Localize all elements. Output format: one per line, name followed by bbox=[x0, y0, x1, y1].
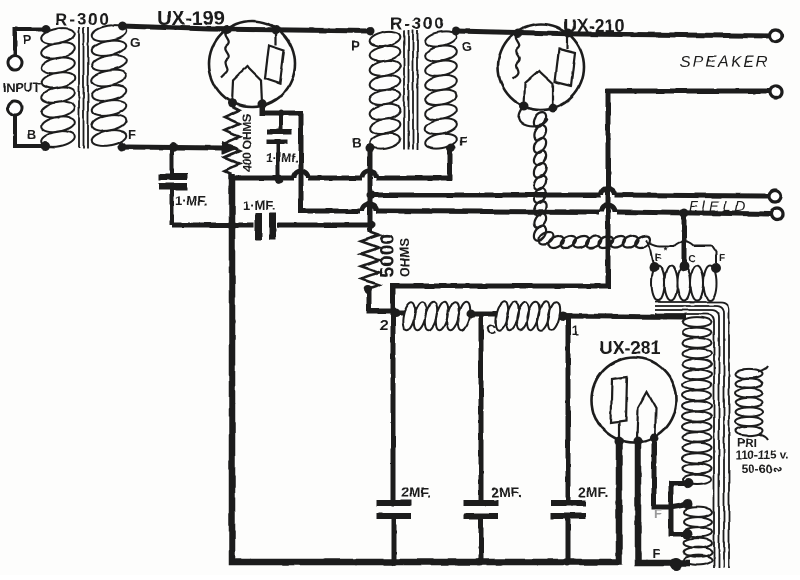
svg-text:2MF.: 2MF. bbox=[491, 484, 521, 500]
svg-text:PRI: PRI bbox=[737, 436, 757, 450]
svg-text:1·MF.: 1·MF. bbox=[243, 198, 276, 213]
svg-text:G: G bbox=[130, 35, 140, 50]
svg-text:F: F bbox=[719, 253, 725, 264]
svg-text:*: * bbox=[664, 245, 668, 255]
svg-text:P: P bbox=[23, 32, 32, 47]
svg-text:F: F bbox=[654, 506, 662, 521]
svg-text:OHMS: OHMS bbox=[397, 238, 412, 277]
svg-text:5000: 5000 bbox=[377, 234, 399, 279]
svg-text:FIELD: FIELD bbox=[689, 199, 749, 215]
svg-text:B: B bbox=[352, 135, 361, 150]
svg-text:UX-281: UX-281 bbox=[599, 338, 660, 358]
svg-text:2MF.: 2MF. bbox=[401, 484, 431, 500]
svg-text:2: 2 bbox=[380, 317, 388, 334]
svg-text:F: F bbox=[128, 127, 136, 142]
svg-text:SPEAKER: SPEAKER bbox=[680, 54, 770, 71]
svg-text:Mf.: Mf. bbox=[281, 151, 298, 165]
svg-text:50-60∾: 50-60∾ bbox=[742, 462, 783, 476]
svg-text:G: G bbox=[462, 39, 472, 54]
svg-text:F: F bbox=[459, 134, 467, 149]
svg-text:B: B bbox=[27, 127, 36, 142]
svg-text:F: F bbox=[655, 252, 662, 264]
svg-text:1·: 1· bbox=[266, 151, 277, 165]
svg-text:1: 1 bbox=[571, 322, 579, 338]
svg-text:P: P bbox=[352, 38, 361, 53]
svg-text:C: C bbox=[486, 321, 496, 337]
svg-text:1·MF.: 1·MF. bbox=[175, 193, 208, 208]
svg-text:400 OHMS: 400 OHMS bbox=[240, 114, 254, 172]
svg-text:INPUT: INPUT bbox=[3, 80, 40, 95]
svg-text:UX-199: UX-199 bbox=[157, 8, 225, 30]
svg-text:C: C bbox=[688, 254, 695, 265]
svg-text:F: F bbox=[652, 546, 660, 561]
svg-text:2MF.: 2MF. bbox=[578, 484, 608, 500]
svg-text:UX-210: UX-210 bbox=[563, 16, 624, 36]
svg-text:110-115 v.: 110-115 v. bbox=[736, 450, 789, 462]
